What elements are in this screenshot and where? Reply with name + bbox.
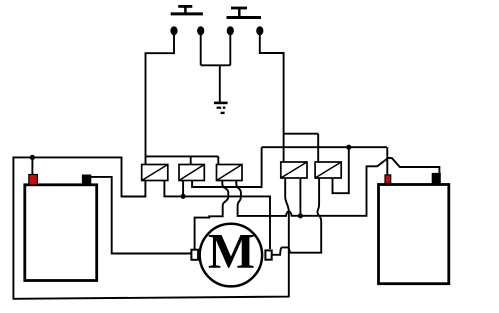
wire rail right end to battery2 plus xyxy=(386,147,388,175)
wire stub box2 top xyxy=(190,156,192,164)
wire box3 right stub wavy to battery2 minus xyxy=(236,158,439,216)
motor right terminal xyxy=(265,250,271,259)
wire dot3 down xyxy=(229,33,231,65)
pushbutton SW2 bar xyxy=(227,16,262,19)
terminal dot 4 xyxy=(256,26,263,35)
ground xyxy=(214,103,228,113)
battery B1 body xyxy=(25,185,97,281)
terminal dot 2 xyxy=(197,26,204,35)
wire stub K5 top xyxy=(317,134,319,162)
wire stub box3 top xyxy=(217,156,219,164)
wire dot4 to relay K4 top xyxy=(260,33,284,162)
wire bar joining dot2 dot3 xyxy=(201,64,231,66)
terminal dot 3 xyxy=(227,26,234,35)
motor M1 circle xyxy=(200,224,262,287)
relay box K2 xyxy=(179,165,204,181)
wire box3 left stub wavy to motor left terminal xyxy=(195,181,229,250)
wire branch to box2 box3 tops xyxy=(146,155,219,157)
pushbutton SW1 stem xyxy=(184,6,187,13)
svg-text:M: M xyxy=(208,222,255,278)
pushbutton SW1 bar xyxy=(171,12,203,15)
wire box2 bottom stub xyxy=(182,181,184,197)
wire right rail xyxy=(262,146,387,148)
wire box1 bottom right rail to motor right terminal xyxy=(164,181,270,250)
wire rail left end to box2 bottom xyxy=(192,147,262,187)
terminal dot 1 xyxy=(170,26,177,35)
wire bracket over to K5 xyxy=(284,133,319,135)
junction dot box2 bottom xyxy=(181,194,186,199)
junction dot battery1 plus xyxy=(30,155,35,160)
relay box K5 xyxy=(315,162,341,178)
wire dot2 down xyxy=(200,33,202,65)
battery B1 plus terminal xyxy=(29,175,38,186)
wire box5 left stub to motor right terminal xyxy=(272,178,321,255)
motor left terminal xyxy=(191,250,198,260)
wire battery1 minus to motor left terminal xyxy=(91,177,192,254)
wire K5 bottom right loop to rail dot xyxy=(333,147,349,193)
junction dot box4 bottom xyxy=(298,213,303,218)
relay box K4 xyxy=(281,162,307,178)
junction dot rail xyxy=(346,145,351,150)
battery B2 plus terminal xyxy=(385,175,391,184)
pushbutton SW2 stem xyxy=(238,8,241,17)
relay box K1 xyxy=(142,165,168,181)
battery B2 minus terminal xyxy=(432,173,440,183)
wire battery1 plus net outer loop xyxy=(13,157,288,298)
battery B1 minus terminal xyxy=(82,175,90,185)
wire battery1 plus stub xyxy=(31,157,33,174)
wire box4 right stub xyxy=(299,178,301,216)
relay box K3 xyxy=(217,165,243,181)
pushbutton SW2 cap xyxy=(231,7,247,10)
battery B2 body xyxy=(379,185,449,284)
wire dot1 to box1 top xyxy=(146,33,175,165)
pushbutton SW1 cap xyxy=(178,5,192,8)
wire to ground xyxy=(219,65,221,102)
